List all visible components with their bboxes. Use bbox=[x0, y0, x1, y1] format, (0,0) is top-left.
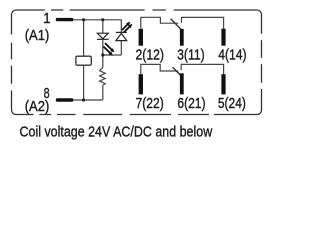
svg-text:(A1): (A1) bbox=[25, 27, 50, 44]
svg-text:7(22): 7(22) bbox=[136, 95, 164, 112]
svg-text:3(11): 3(11) bbox=[177, 46, 205, 63]
svg-text:Coil voltage 24V AC/DC and bel: Coil voltage 24V AC/DC and below bbox=[20, 124, 213, 141]
svg-text:6(21): 6(21) bbox=[177, 95, 205, 112]
svg-text:(A2): (A2) bbox=[25, 98, 50, 115]
svg-text:2(12): 2(12) bbox=[136, 46, 165, 63]
svg-text:4(14): 4(14) bbox=[218, 46, 246, 63]
svg-text:1: 1 bbox=[43, 10, 50, 27]
svg-text:5(24): 5(24) bbox=[218, 95, 246, 112]
